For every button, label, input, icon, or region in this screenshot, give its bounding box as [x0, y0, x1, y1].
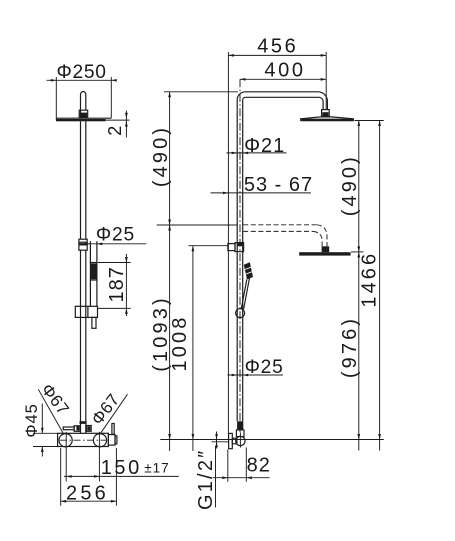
svg-text:1466: 1466 [359, 251, 381, 308]
svg-text:1008: 1008 [169, 315, 191, 372]
svg-text:82: 82 [247, 455, 271, 477]
svg-text:456: 456 [257, 35, 298, 57]
svg-text:±17: ±17 [144, 460, 169, 475]
svg-text:187: 187 [106, 266, 128, 302]
svg-text:Φ21: Φ21 [244, 135, 285, 157]
svg-text:Φ25: Φ25 [96, 224, 135, 245]
svg-text:(976): (976) [339, 316, 361, 378]
svg-text:150: 150 [101, 457, 142, 479]
svg-text:2: 2 [105, 126, 125, 136]
svg-text:G1/2″: G1/2″ [195, 449, 217, 510]
svg-text:(490): (490) [150, 125, 172, 187]
svg-text:Φ45: Φ45 [23, 403, 41, 438]
svg-text:(490): (490) [339, 154, 361, 216]
svg-text:400: 400 [264, 59, 305, 81]
